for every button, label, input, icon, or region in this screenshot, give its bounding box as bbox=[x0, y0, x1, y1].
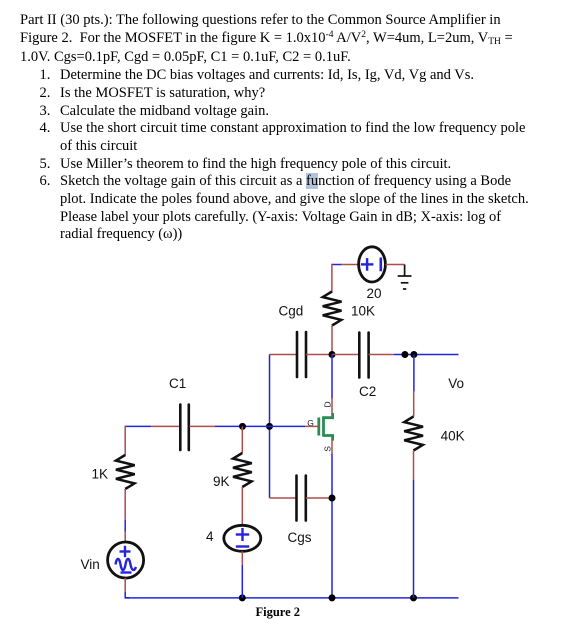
V4 minus symbol bbox=[236, 545, 249, 547]
ground bbox=[398, 265, 412, 290]
svg-text:1K: 1K bbox=[92, 467, 109, 482]
node bottom 9K junction bbox=[239, 594, 246, 601]
V4 value label 4 bbox=[206, 529, 214, 544]
R9K value label 9K bbox=[213, 474, 230, 489]
svg-text:C2: C2 bbox=[359, 384, 376, 399]
svg-text:Vo: Vo bbox=[448, 376, 464, 391]
resistor R40K bbox=[404, 417, 423, 451]
pin label G bbox=[307, 418, 314, 428]
svg-text:Vin: Vin bbox=[81, 557, 100, 572]
V4 plus symbol bbox=[236, 528, 249, 541]
Cgd label bbox=[279, 304, 304, 319]
wire mid rail blue to gate bbox=[215, 425, 305, 427]
wire 40K top blue bbox=[413, 355, 415, 392]
wire 1K top pin red bbox=[124, 426, 126, 455]
resistor R1K bbox=[116, 455, 135, 489]
R10K value label 10K bbox=[351, 304, 375, 319]
wire C1 right pin red bbox=[190, 425, 216, 427]
source Vin body bbox=[108, 542, 144, 578]
wire left-mid vertical blue bbox=[269, 355, 271, 499]
node output junction 2 bbox=[410, 351, 417, 358]
Vin plus symbol bbox=[120, 546, 131, 557]
wire V20 to R10K bbox=[331, 265, 333, 292]
wire top-left blue tick bbox=[332, 264, 342, 266]
wire V4 to bottom rail blue bbox=[241, 565, 243, 598]
wire C2 to output red bbox=[369, 354, 394, 356]
voltage source V20 body bbox=[359, 247, 386, 282]
transistor M1 source arm bbox=[324, 436, 333, 441]
wire Vin bottom pin red bbox=[124, 578, 126, 592]
transistor M1 channel bar bbox=[322, 416, 325, 436]
node bottom source junction bbox=[329, 594, 336, 601]
svg-text:D: D bbox=[323, 401, 333, 407]
V20 value label 20 bbox=[367, 286, 382, 301]
capacitor Cgd bbox=[297, 332, 306, 377]
wire 9K bottom pin red bbox=[241, 487, 243, 525]
wire drain pin red bbox=[331, 398, 333, 413]
wire gate pin red bbox=[305, 425, 319, 427]
wire Cgs left pin red bbox=[270, 497, 297, 499]
capacitor C2 bbox=[359, 333, 368, 378]
wire Cgs right pin red bbox=[306, 497, 332, 499]
wire R10K to top rail bbox=[331, 326, 333, 355]
wire top rail left to Cgd bbox=[270, 354, 298, 356]
node bottom 40K junction bbox=[410, 594, 417, 601]
transistor M1 drain arm bbox=[324, 413, 333, 418]
svg-text:Figure 2: Figure 2 bbox=[256, 605, 301, 619]
svg-text:4: 4 bbox=[206, 529, 214, 544]
V20 plus symbol bbox=[361, 258, 374, 271]
node output junction 1 bbox=[401, 351, 408, 358]
R40K value label 40K bbox=[441, 429, 465, 444]
wire 9K top pin red bbox=[241, 426, 243, 453]
transistor M1 gate bar bbox=[317, 418, 320, 436]
node drain-rail junction bbox=[329, 351, 336, 358]
Vo label bbox=[448, 376, 464, 391]
Cgs label bbox=[288, 530, 312, 545]
node source-Cgs junction bbox=[329, 495, 336, 502]
wire 1K bottom pin red bbox=[124, 489, 126, 520]
wire Vin top pin red bbox=[124, 532, 126, 543]
C2 label bbox=[359, 384, 376, 399]
capacitor Cgs bbox=[297, 476, 306, 521]
resistor R9K bbox=[233, 453, 252, 487]
svg-text:S: S bbox=[323, 446, 333, 452]
wire Cgd to drain node bbox=[306, 354, 332, 356]
svg-text:9K: 9K bbox=[213, 474, 230, 489]
wire V4 bottom pin red bbox=[241, 551, 243, 565]
Vin sine symbol bbox=[116, 559, 137, 570]
wire drain vertical blue bbox=[331, 355, 333, 399]
wire C1 left pin red bbox=[151, 425, 181, 427]
C1 label bbox=[169, 376, 186, 391]
pin label S bbox=[323, 446, 333, 452]
Vin minus symbol bbox=[121, 571, 132, 573]
wire drain node to C2 bbox=[332, 354, 359, 356]
wire bottom rail blue bbox=[125, 597, 458, 599]
svg-text:40K: 40K bbox=[441, 429, 465, 444]
wire to V20 left pin bbox=[341, 264, 359, 266]
wire output rail blue bbox=[394, 354, 459, 356]
wire source vertical blue bbox=[331, 453, 333, 598]
wire bottom-left corner blue bbox=[125, 592, 130, 598]
wire V20 right pin bbox=[385, 264, 404, 266]
wire source pin red bbox=[331, 440, 333, 453]
svg-text:10K: 10K bbox=[351, 304, 375, 319]
svg-text:20: 20 bbox=[367, 286, 382, 301]
svg-text:C1: C1 bbox=[169, 376, 186, 391]
node 9K top junction bbox=[239, 423, 246, 430]
wire 40K top pin red bbox=[413, 392, 415, 417]
Vin label bbox=[81, 557, 100, 572]
V20 bar symbol bbox=[379, 258, 382, 272]
node gate junction bbox=[266, 423, 273, 430]
wire blue tick above Vin bbox=[124, 520, 126, 532]
pin label D bbox=[323, 401, 333, 407]
wire mid rail left blue bbox=[125, 425, 151, 427]
R1K value label 1K bbox=[92, 467, 109, 482]
wire 40K to bottom rail blue bbox=[413, 480, 415, 598]
svg-text:Cgs: Cgs bbox=[288, 530, 312, 545]
svg-text:Cgd: Cgd bbox=[279, 304, 304, 319]
Figure 2 caption bbox=[256, 605, 301, 619]
source V4 body bbox=[224, 525, 261, 551]
wire 40K bottom pin red bbox=[413, 451, 415, 480]
capacitor C1 bbox=[180, 405, 189, 451]
resistor R10K bbox=[323, 292, 342, 326]
